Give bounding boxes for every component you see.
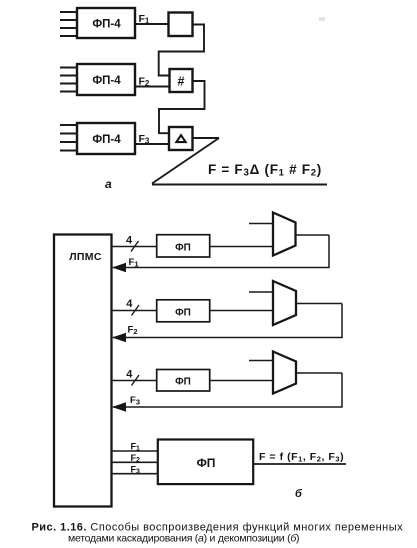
output wire of ФП4 bbox=[254, 463, 347, 465]
svg-text:а: а bbox=[105, 177, 112, 191]
block ФП2 bbox=[157, 300, 210, 322]
svg-text:б: б bbox=[295, 488, 303, 500]
svg-text:F3: F3 bbox=[130, 395, 140, 406]
wire F1 input to bottom ФП4 bbox=[112, 450, 160, 452]
B3 input stubs bbox=[60, 125, 77, 151]
box U1 (empty) bbox=[169, 13, 193, 37]
row1 feedback arrowhead bbox=[112, 263, 126, 272]
box U2 with # symbol bbox=[170, 69, 193, 92]
svg-text:4: 4 bbox=[126, 235, 133, 247]
svg-text:ФП: ФП bbox=[175, 377, 191, 388]
wire F1: B1 output to box U1 bbox=[135, 23, 170, 25]
block B2 ФП-4 bbox=[77, 64, 135, 95]
svg-text:F2: F2 bbox=[131, 453, 141, 464]
wire F2 input to bottom ФП4 bbox=[112, 461, 160, 463]
wire U2 output to U3 input (right, down, left, down) bbox=[159, 81, 205, 133]
row2 MUX2 stub input bbox=[249, 291, 273, 293]
svg-text:ФП: ФП bbox=[175, 243, 191, 254]
row3 bus wire ЛПМС to ФП3 to MUX3 bbox=[112, 380, 274, 382]
block ФП1 bbox=[157, 235, 210, 257]
MUX1 trapezoid bbox=[273, 213, 296, 256]
svg-text:ЛПМС: ЛПМС bbox=[69, 251, 102, 263]
row2 MUX2 output wire right bbox=[296, 303, 342, 305]
triangle symbol inside U3 bbox=[176, 135, 185, 142]
row1 MUX1 output wire right bbox=[296, 234, 330, 236]
MUX2 trapezoid bbox=[273, 281, 296, 325]
svg-text:ФП-4: ФП-4 bbox=[92, 19, 121, 31]
underline of formula (a) bbox=[152, 184, 327, 186]
diagonal line of result banner bbox=[152, 138, 219, 184]
svg-text:F1: F1 bbox=[139, 13, 150, 26]
MUX3 trapezoid bbox=[273, 352, 296, 394]
row1 feedback wire down and left to ЛПМС (F1) bbox=[113, 235, 329, 268]
row2 bus wire ЛПМС to ФП2 to MUX2 bbox=[112, 310, 274, 312]
row1 MUX1 stub input bbox=[249, 223, 273, 225]
svg-text:F3: F3 bbox=[131, 465, 141, 476]
row3 feedback arrowhead bbox=[112, 402, 126, 411]
block B1 ФП-4 bbox=[77, 8, 135, 38]
block B3 ФП-4 bbox=[77, 123, 135, 154]
block ФП3 bbox=[157, 370, 210, 392]
wire F2: B2 output to box U2 bbox=[135, 86, 171, 88]
wire U3 output bbox=[192, 137, 219, 139]
row2 feedback wire down and left to ЛПМС (F2) bbox=[113, 304, 342, 338]
svg-text:методами каскадирования (а) и: методами каскадирования (а) и декомпозиц… bbox=[68, 533, 299, 545]
svg-text:4: 4 bbox=[126, 369, 133, 381]
svg-text:ФП: ФП bbox=[197, 456, 216, 470]
wire U1 output to U2 input (right, down, left, down) bbox=[159, 25, 204, 76]
svg-text:ФП-4: ФП-4 bbox=[92, 134, 121, 146]
svg-text:#: # bbox=[178, 75, 185, 89]
svg-text:ФП: ФП bbox=[175, 308, 191, 319]
svg-text:F1: F1 bbox=[131, 442, 141, 453]
wire F3: B3 output to box U3 bbox=[135, 143, 170, 145]
row2 bus slash bbox=[132, 305, 140, 316]
wire F3 input to bottom ФП4 bbox=[112, 473, 160, 475]
svg-text:ФП-4: ФП-4 bbox=[92, 75, 121, 87]
row3 bus slash bbox=[132, 375, 140, 386]
row1 bus slash bbox=[131, 241, 139, 252]
svg-text:4: 4 bbox=[126, 298, 133, 310]
row2 feedback arrowhead bbox=[112, 333, 126, 342]
svg-text:F = F3Δ (F1 # F2): F = F3Δ (F1 # F2) bbox=[208, 162, 322, 179]
svg-text:F2: F2 bbox=[128, 325, 138, 336]
svg-text:F = f (F1, F2, F3): F = f (F1, F2, F3) bbox=[259, 451, 344, 463]
svg-text:F2: F2 bbox=[139, 76, 150, 89]
row1 bus wire ЛПМС to ФП1 to MUX1 bbox=[112, 246, 274, 248]
svg-text:F3: F3 bbox=[139, 133, 150, 146]
block ФП4 (bottom) bbox=[158, 440, 253, 485]
row3 MUX3 stub input bbox=[249, 360, 273, 362]
box U3 with triangle symbol bbox=[169, 127, 193, 150]
B2 input stubs bbox=[60, 68, 77, 92]
svg-text:F1: F1 bbox=[129, 257, 139, 268]
B1 input stubs bbox=[60, 12, 77, 36]
row3 feedback wire down and left to ЛПМС (F3) bbox=[113, 373, 342, 407]
row3 MUX3 output wire right bbox=[296, 372, 342, 374]
top-right scan speck bbox=[319, 17, 325, 21]
block ЛПМС bbox=[54, 235, 112, 507]
